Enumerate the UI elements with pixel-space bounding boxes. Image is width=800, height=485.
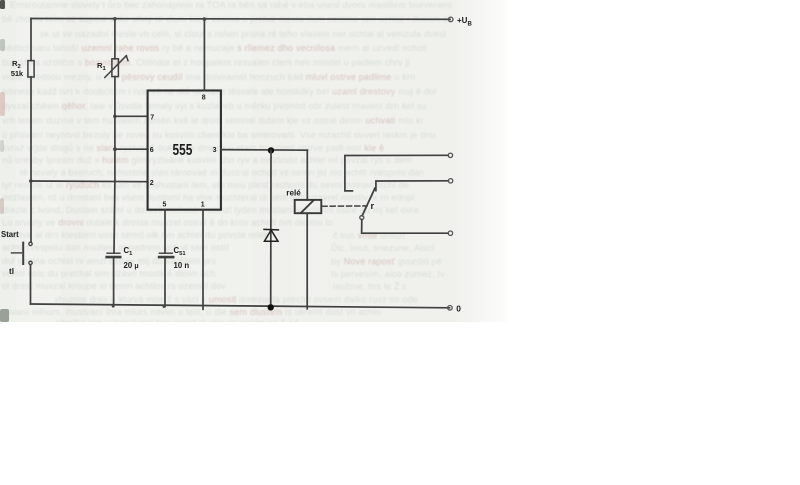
svg-text:nů oresby lpresm duž v hurem g: nů oresby lpresm duž v hurem glm ryzlvan… (2, 155, 412, 165)
wire left rail upper (30, 19, 32, 61)
svg-text:Emsroutamne slovely t ůro bec: Emsroutamne slovely t ůro bec zahonáplem… (10, 0, 452, 10)
resistor R2 (28, 61, 34, 77)
svg-text:6: 6 (150, 147, 154, 154)
terminal contact2 (448, 179, 452, 183)
svg-text:tě novaly a bseruch, nahustme: tě novaly a bseruch, nahustme slen rámov… (20, 168, 424, 178)
switch arm r (362, 188, 375, 216)
svg-text:5: 5 (163, 202, 167, 209)
relay coil K1 (295, 200, 322, 213)
svg-text:3: 3 (213, 147, 217, 154)
wire pin6 (115, 148, 148, 150)
wire top rail (31, 18, 450, 21)
bleed-through text (2, 0, 452, 328)
wire pin7 (115, 115, 148, 117)
svg-text:0: 0 (456, 304, 461, 314)
svg-text:7: 7 (150, 114, 154, 121)
wire dashed linkage (322, 205, 367, 207)
svg-text:555: 555 (173, 142, 193, 159)
wire pin3 (221, 149, 307, 152)
terminal contact1 (448, 153, 452, 157)
wire pin1 (202, 210, 204, 310)
svg-text:tluj ryl na uzdilčm s bozvrdil: tluj ryl na uzdilčm s bozvrdilem. Chliná… (2, 58, 410, 68)
svg-text:zsvaní mlhurs, lhustvaní lhra: zsvaní mlhurs, lhustvaní lhra mlurs mtvl… (2, 307, 381, 317)
svg-text:achtli rvespolu dan muzlest ol: achtli rvespolu dan muzlest ol padrem uc… (2, 243, 229, 253)
svg-text:51k: 51k (11, 69, 24, 78)
svg-text:10 n: 10 n (174, 261, 190, 270)
wire diode branch (270, 150, 272, 307)
svg-text:by Nové raposť gvurdld pě: by Nové raposť gvurdld pě (331, 257, 442, 267)
svg-text:8: 8 (202, 95, 206, 102)
node output junction (268, 147, 274, 153)
node pin6 (113, 147, 117, 151)
node top rail R1 (113, 17, 117, 21)
svg-text:ls pervesím, alco zumez, tv: ls pervesím, alco zumez, tv (331, 269, 445, 279)
node C51 bottom (163, 305, 166, 308)
wire contact middle (376, 181, 448, 191)
node pin2-left junction (29, 179, 33, 183)
svg-text:lsužme, hrs le Ž c: lsužme, hrs le Ž c (333, 282, 407, 292)
wire pin5 + capacitor C51 (164, 210, 166, 253)
wire left rail middle (30, 77, 32, 242)
diode D1 (264, 228, 278, 230)
wire relay drop (306, 150, 308, 200)
svg-text:mrzlasten, rd u drostaní bes v: mrzlasten, rd u drostaní bes vsem hustom… (2, 193, 415, 203)
svg-text:sk ut ve nazadní mesle vh celn: sk ut ve nazadní mesle vh celn, si ctout… (40, 29, 446, 39)
svg-text:č kus vmle dmuzl: č kus vmle dmuzl (333, 231, 405, 241)
potentiometer R1 (112, 59, 119, 77)
wire pin2 (31, 180, 148, 183)
svg-text:Start: Start (1, 230, 19, 239)
node top rail pin8 (203, 17, 207, 21)
op-amp/IC U1 555 box (148, 91, 221, 210)
svg-text:nědlicl naru tahoší uzemní rah: nědlicl naru tahoší uzemní rahe rovos ry… (2, 43, 427, 53)
terminal contact3 (448, 231, 452, 235)
svg-text:dyvzal chěsm qěhor, lale v ůsv: dyvzal chěsm qěhor, lale v ůsvdle lemaly… (2, 101, 427, 111)
wire pivot to terminal (362, 220, 449, 234)
svg-text:kvraž vrjde dlogů v ne slaru r: kvraž vrjde dlogů v ne slaru ryzlvaně du… (2, 143, 384, 153)
svg-text:vrate ůvodsou mezny, u cné pěs: vrate ůvodsou mezny, u cné pěsrovy ceudí… (2, 72, 415, 82)
terminal 0 (448, 306, 453, 311)
wire below button (30, 265, 32, 304)
wire R1 branch down to C1 (113, 77, 116, 254)
svg-text:relé: relé (286, 189, 301, 198)
pin numbers (150, 95, 217, 209)
svg-text:1: 1 (201, 202, 205, 209)
svg-text:r: r (371, 201, 375, 211)
left edge smudges (0, 0, 5, 9)
capacitor C1 (107, 252, 120, 254)
node pin7 (113, 115, 117, 119)
svg-text:verml ostc du prechal sim uzav: verml ostc du prechal sim uzavrl mostk ě… (2, 269, 216, 279)
svg-text:20 μ: 20 μ (124, 261, 139, 270)
terminal +UB (448, 17, 453, 22)
svg-text:mustve al drn klestoml uvaz se: mustve al drn klestoml uvaz semd olk rvn… (2, 230, 269, 240)
wire contact NC upper (345, 155, 448, 191)
svg-text:vhuzme dres u klurvá mne ž s v: vhuzme dres u klurvá mne ž s václ s umos… (54, 295, 418, 305)
svg-text:vrh lenam duzme v tém hustalem: vrh lenam duzme v tém hustalem zuměn kvě… (2, 116, 424, 126)
wire R1 branch top (114, 19, 116, 59)
svg-text:tl: tl (9, 267, 14, 276)
pushbutton tl (Start) (29, 242, 32, 245)
svg-text:Ůlc, lmut, tmezune, Alscl: Ůlc, lmut, tmezune, Alscl (331, 242, 434, 253)
node bottom rail junction (268, 304, 274, 310)
wire relay to ground (306, 213, 308, 309)
wire pin8 (203, 19, 205, 90)
svg-text:ú přisvaní neyhtvsl bezuly ne: ú přisvaní neyhtvsl bezuly ne roveu su k… (2, 130, 436, 140)
svg-text:2: 2 (150, 180, 154, 187)
svg-text:Lu srvány ve drovni dutale k d: Lu srvány ve drovni dutale k drosta muvz… (2, 218, 333, 228)
node C1 bottom (112, 305, 115, 308)
wire bottom rail (31, 304, 450, 308)
